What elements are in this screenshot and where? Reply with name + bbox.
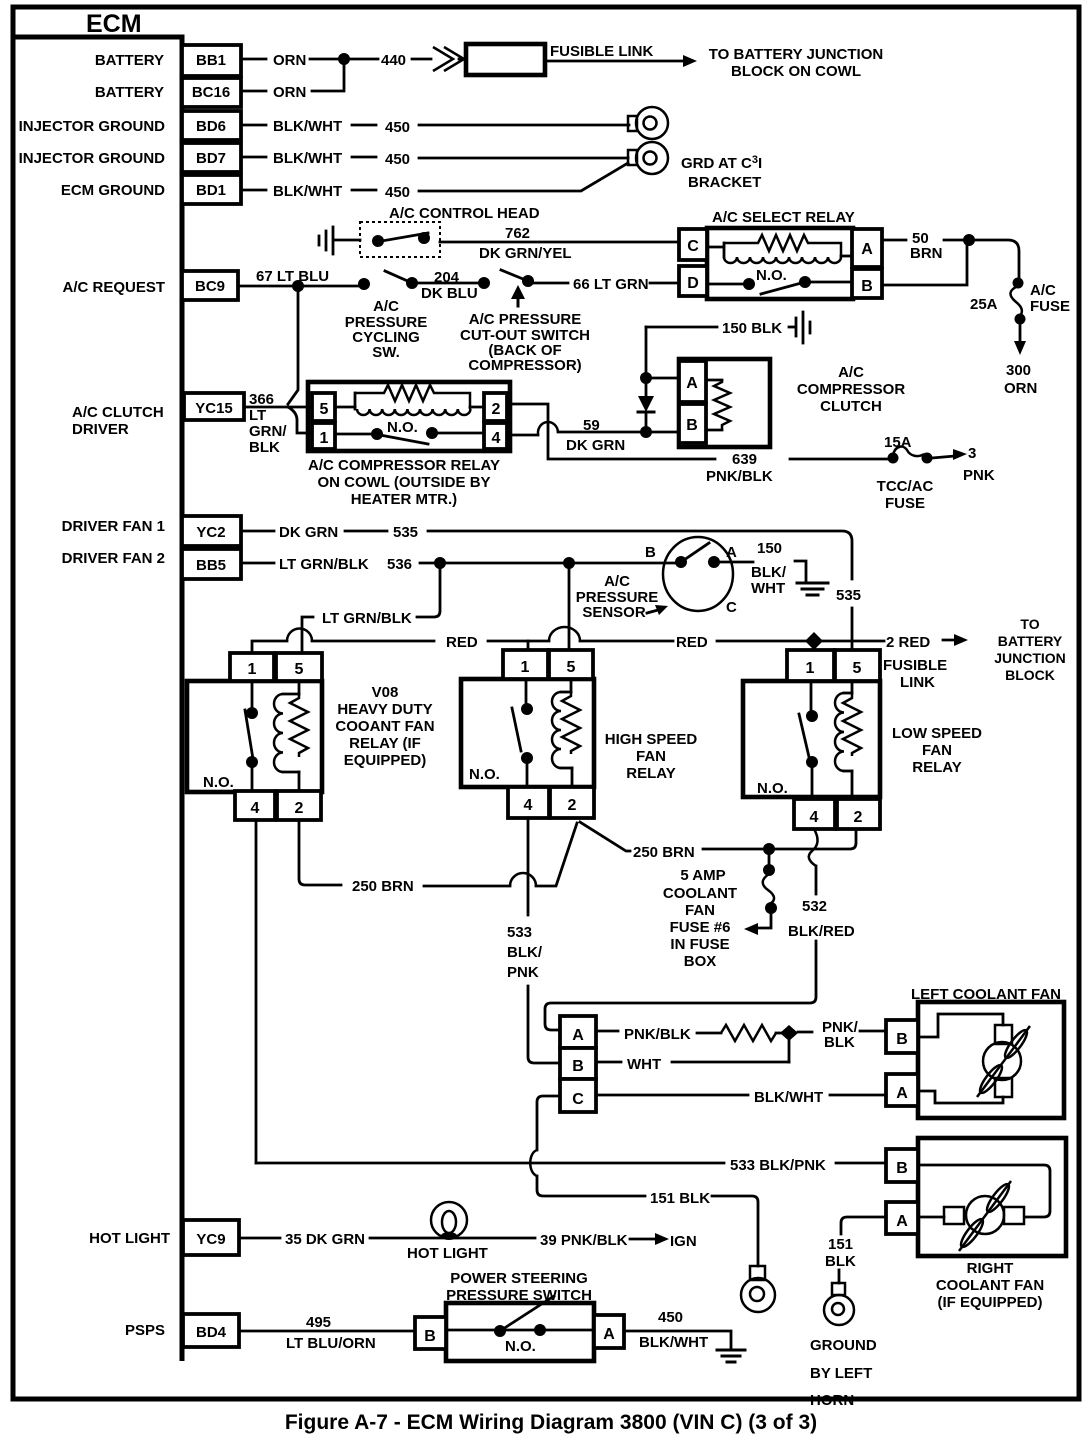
- svg-text:LOW SPEED: LOW SPEED: [892, 725, 982, 742]
- wire BC9 67 LT BLU: [240, 268, 359, 286]
- svg-text:DRIVER: DRIVER: [72, 421, 129, 438]
- label POWER STEERING PRESSURE SWITCH: [446, 1270, 592, 1304]
- wire to battery junction block: [546, 55, 697, 67]
- select relay coil (resistor + coil loop): [709, 235, 852, 263]
- relay V08 heavy duty body box: [187, 681, 322, 792]
- PS switch pin B box: [415, 1317, 446, 1349]
- svg-text:BATTERY: BATTERY: [998, 633, 1063, 649]
- ground grommet 2: [628, 142, 668, 174]
- svg-text:A: A: [896, 1213, 908, 1230]
- wire RED row with hops: [252, 627, 968, 653]
- pin label A/C CLUTCH DRIVER (YC15): [72, 404, 164, 438]
- heavy duty pin 4 box: [235, 791, 275, 820]
- svg-text:25A: 25A: [970, 296, 998, 313]
- svg-text:BOX: BOX: [684, 953, 717, 970]
- svg-text:COOANT FAN: COOANT FAN: [335, 718, 434, 735]
- svg-text:HOT LIGHT: HOT LIGHT: [89, 1230, 170, 1247]
- svg-text:2: 2: [854, 809, 863, 826]
- label TCC/AC FUSE: [877, 478, 934, 512]
- svg-text:450: 450: [385, 151, 410, 168]
- svg-text:ON COWL (OUTSIDE BY: ON COWL (OUTSIDE BY: [317, 474, 490, 491]
- svg-text:A/C: A/C: [604, 573, 630, 590]
- high speed relay coil: [552, 679, 580, 787]
- label TO BATTERY JUNCTION BLOCK ON COWL: [709, 46, 883, 80]
- svg-text:SENSOR: SENSOR: [582, 604, 646, 621]
- pin 5 box: [312, 393, 335, 421]
- svg-text:LINK: LINK: [900, 674, 935, 691]
- clutch pin A box: [679, 361, 706, 402]
- svg-text:250 BRN: 250 BRN: [633, 844, 695, 861]
- label 5 AMP COOLANT FAN FUSE #6 IN FUSE BOX: [663, 867, 737, 970]
- svg-text:GROUND: GROUND: [810, 1337, 877, 1354]
- svg-text:A/C COMPRESSOR RELAY: A/C COMPRESSOR RELAY: [308, 457, 500, 474]
- svg-text:FAN: FAN: [922, 742, 952, 759]
- svg-text:440: 440: [381, 52, 406, 69]
- svg-text:BC16: BC16: [192, 84, 230, 101]
- ring terminal 1: [741, 1266, 775, 1312]
- svg-text:5: 5: [853, 660, 862, 677]
- wire high speed pin 4 down 533 BLK/PNK: [507, 818, 560, 1063]
- pin box BD4: [183, 1314, 239, 1347]
- svg-text:BLK/WHT: BLK/WHT: [273, 150, 342, 167]
- svg-text:B: B: [686, 417, 698, 434]
- svg-text:IGN: IGN: [670, 1233, 697, 1250]
- svg-text:639: 639: [732, 451, 757, 468]
- wire BC16 ORN: [243, 64, 344, 101]
- svg-text:BB5: BB5: [196, 557, 226, 574]
- svg-text:BATTERY: BATTERY: [95, 84, 164, 101]
- svg-text:PSPS: PSPS: [125, 1322, 165, 1339]
- A/C fuse element 25A: [970, 278, 1070, 325]
- svg-text:BLK/: BLK/: [751, 564, 787, 581]
- svg-text:RELAY: RELAY: [912, 759, 961, 776]
- svg-text:4: 4: [251, 800, 260, 817]
- svg-text:204: 204: [434, 269, 460, 286]
- svg-text:67 LT BLU: 67 LT BLU: [256, 268, 329, 285]
- pin box YC2: [182, 516, 241, 546]
- right fan pin B box: [886, 1149, 918, 1182]
- svg-text:ORN: ORN: [1004, 380, 1037, 397]
- svg-text:BLK/WHT: BLK/WHT: [639, 1334, 708, 1351]
- fusible link element: [466, 44, 545, 75]
- pin box YC9: [183, 1220, 239, 1255]
- high speed pin 5 box: [549, 650, 593, 679]
- left coolant fan outer box: [918, 1002, 1064, 1118]
- wire diode bottom to clutch B: [646, 431, 679, 434]
- wire B select relay to junction: [884, 246, 967, 285]
- node junction ORN: [338, 53, 350, 65]
- relay A/C select outer box: [707, 228, 853, 299]
- svg-text:5 AMP: 5 AMP: [680, 867, 725, 884]
- svg-text:C: C: [687, 238, 699, 255]
- svg-text:66 LT GRN: 66 LT GRN: [573, 276, 649, 293]
- svg-text:533 BLK/PNK: 533 BLK/PNK: [730, 1157, 826, 1174]
- svg-text:BLK: BLK: [824, 1034, 855, 1051]
- svg-text:151 BLK: 151 BLK: [650, 1190, 710, 1207]
- svg-text:INJECTOR GROUND: INJECTOR GROUND: [19, 118, 166, 135]
- svg-text:450: 450: [385, 184, 410, 201]
- svg-text:BATTERY: BATTERY: [95, 52, 164, 69]
- pin box BC9: [182, 271, 238, 300]
- wire heavy duty pin 4 down long run: [255, 820, 258, 1163]
- node junction 536 right: [563, 557, 575, 569]
- node junction 50 BRN: [963, 234, 975, 246]
- svg-text:RELAY (IF: RELAY (IF: [349, 735, 421, 752]
- svg-text:535: 535: [393, 524, 418, 541]
- svg-text:450: 450: [658, 1309, 683, 1326]
- connector pin C box: [560, 1079, 596, 1112]
- wire BB1 ORN 440: [243, 52, 466, 69]
- relay low speed body box: [743, 681, 880, 797]
- svg-text:FAN: FAN: [685, 902, 715, 919]
- svg-text:SW.: SW.: [372, 344, 400, 361]
- diode element: [638, 378, 654, 428]
- svg-text:(IF EQUIPPED): (IF EQUIPPED): [937, 1294, 1042, 1311]
- left fan pin B box: [886, 1020, 918, 1053]
- relay high speed body box: [461, 679, 594, 787]
- ECM block outline: [13, 10, 182, 1361]
- svg-text:2 RED: 2 RED: [886, 634, 930, 651]
- svg-text:300: 300: [1006, 362, 1031, 379]
- wire right fan B 533 BLK/PNK: [256, 1157, 886, 1174]
- svg-text:A: A: [896, 1085, 908, 1102]
- svg-text:495: 495: [306, 1314, 331, 1331]
- low speed relay coil: [835, 681, 861, 799]
- label V08 HEAVY DUTY COOANT FAN RELAY: [335, 684, 434, 769]
- A/C pressure sensor circle: [645, 537, 737, 616]
- svg-text:150 BLK: 150 BLK: [722, 320, 782, 337]
- low speed pin 5 box: [835, 650, 880, 681]
- svg-text:DK BLU: DK BLU: [421, 285, 478, 302]
- svg-text:FUSE: FUSE: [1030, 298, 1070, 315]
- low speed relay N.O. switch: [757, 681, 818, 799]
- svg-text:PNK: PNK: [507, 964, 539, 981]
- svg-text:COMPRESSOR: COMPRESSOR: [797, 381, 906, 398]
- svg-text:HEATER MTR.): HEATER MTR.): [351, 491, 457, 508]
- svg-text:39 PNK/BLK: 39 PNK/BLK: [540, 1232, 628, 1249]
- heavy duty pin 5 box: [276, 653, 322, 681]
- svg-text:HEAVY DUTY: HEAVY DUTY: [337, 701, 432, 718]
- svg-text:GRN/: GRN/: [249, 423, 287, 440]
- svg-text:N.O.: N.O.: [756, 267, 787, 284]
- low speed pin 4 box: [794, 799, 835, 829]
- svg-text:DK GRN: DK GRN: [279, 524, 338, 541]
- svg-text:IN FUSE: IN FUSE: [670, 936, 729, 953]
- wire C drop to 151 BLK: [530, 1096, 758, 1266]
- coolant fan fuse 5 AMP element: [744, 849, 777, 935]
- svg-text:PNK/BLK: PNK/BLK: [706, 468, 773, 485]
- svg-text:D: D: [687, 275, 699, 292]
- svg-text:59: 59: [583, 417, 600, 434]
- svg-text:4: 4: [524, 797, 533, 814]
- power steering pressure switch outer box: [446, 1303, 594, 1361]
- svg-text:BC9: BC9: [195, 278, 225, 295]
- svg-text:B: B: [424, 1328, 436, 1345]
- high speed pin 4 box: [508, 787, 549, 818]
- svg-text:BLK: BLK: [825, 1253, 856, 1270]
- svg-text:B: B: [896, 1160, 908, 1177]
- svg-text:JUNCTION: JUNCTION: [994, 650, 1066, 666]
- svg-text:4: 4: [810, 809, 819, 826]
- svg-text:BLK/: BLK/: [507, 944, 543, 961]
- svg-text:ORN: ORN: [273, 52, 306, 69]
- svg-text:B: B: [861, 278, 873, 295]
- connector pin A box: [560, 1016, 596, 1048]
- wire A 450 BLK/WHT to ground: [624, 1309, 745, 1362]
- svg-text:BY LEFT: BY LEFT: [810, 1365, 872, 1382]
- svg-text:BD4: BD4: [196, 1324, 227, 1341]
- svg-text:A/C REQUEST: A/C REQUEST: [62, 279, 165, 296]
- heavy duty relay coil: [274, 681, 308, 791]
- node junction diode top: [640, 372, 652, 384]
- select relay N.O. switch: [709, 267, 852, 294]
- pin box BD7: [182, 143, 241, 172]
- wire pin4 59 DK GRN: [508, 417, 643, 454]
- label RIGHT COOLANT FAN (title below box): [936, 1260, 1044, 1311]
- clutch pin B box: [679, 404, 706, 443]
- svg-text:A/C PRESSURE: A/C PRESSURE: [469, 311, 582, 328]
- wire BD1 BLK/WHT 450: [243, 163, 628, 201]
- label A/C COMPRESSOR RELAY ON COWL: [308, 457, 500, 508]
- wire RED drop to high speed relay pin 1: [527, 641, 530, 649]
- svg-text:YC2: YC2: [196, 524, 225, 541]
- svg-text:A/C: A/C: [373, 298, 399, 315]
- svg-text:BD7: BD7: [196, 150, 226, 167]
- svg-text:366: 366: [249, 391, 274, 408]
- svg-text:ECM: ECM: [86, 10, 142, 38]
- pin box BD6: [182, 111, 241, 140]
- wire high speed pin 2 to 250 BRN right: [580, 822, 856, 861]
- svg-text:250 BRN: 250 BRN: [352, 878, 414, 895]
- wire fork to relay pins 5 and 1: [288, 407, 312, 433]
- svg-text:BRN: BRN: [910, 245, 943, 262]
- high speed relay N.O. switch: [469, 679, 533, 787]
- svg-text:RIGHT: RIGHT: [967, 1260, 1014, 1277]
- A/C compressor clutch outer box: [679, 359, 770, 447]
- svg-text:TO BATTERY JUNCTION: TO BATTERY JUNCTION: [709, 46, 883, 63]
- svg-text:C: C: [726, 599, 737, 616]
- svg-text:B: B: [572, 1058, 584, 1075]
- svg-text:533: 533: [507, 924, 532, 941]
- svg-text:PNK: PNK: [963, 467, 995, 484]
- svg-text:2: 2: [568, 797, 577, 814]
- svg-text:GRD AT C3I: GRD AT C3I: [681, 154, 762, 172]
- svg-text:INJECTOR GROUND: INJECTOR GROUND: [19, 150, 166, 167]
- wire right fan A to ground by left horn: [825, 1217, 886, 1283]
- svg-text:BLK/WHT: BLK/WHT: [754, 1089, 823, 1106]
- clutch coil resistor: [706, 380, 730, 430]
- svg-text:WHT: WHT: [627, 1056, 661, 1073]
- svg-text:BLOCK: BLOCK: [1005, 667, 1055, 683]
- wire C BLK/WHT: [596, 1089, 886, 1106]
- svg-text:DRIVER FAN 2: DRIVER FAN 2: [62, 550, 165, 567]
- A/C pressure cycling switch: [358, 271, 418, 290]
- svg-text:5: 5: [567, 659, 576, 676]
- wire A PNK/BLK with resistor: [596, 1019, 886, 1051]
- svg-text:2: 2: [295, 800, 304, 817]
- svg-text:450: 450: [385, 119, 410, 136]
- svg-text:N.O.: N.O.: [469, 766, 500, 783]
- svg-text:EQUIPPED): EQUIPPED): [344, 752, 427, 769]
- svg-text:532: 532: [802, 898, 827, 915]
- svg-text:HORN: HORN: [810, 1392, 854, 1409]
- svg-text:LT BLU/ORN: LT BLU/ORN: [286, 1335, 376, 1352]
- svg-text:COOLANT: COOLANT: [663, 885, 737, 902]
- svg-text:A/C CLUTCH: A/C CLUTCH: [72, 404, 164, 421]
- svg-text:RELAY: RELAY: [626, 765, 675, 782]
- wire BC9 branch down to compressor relay: [288, 286, 298, 404]
- pin box YC15: [184, 393, 244, 420]
- A/C pressure cut-out switch: [478, 270, 534, 306]
- wire 150 BLK: [646, 320, 782, 337]
- heavy duty pin 1 box: [230, 653, 274, 681]
- svg-text:HOT LIGHT: HOT LIGHT: [407, 1245, 488, 1262]
- wire heavy duty pin 2 to 250 BRN: [299, 820, 577, 895]
- node junction 67 LT BLU: [292, 280, 304, 292]
- wire diode top to clutch A: [646, 377, 679, 380]
- label A/C COMPRESSOR CLUTCH: [797, 364, 906, 415]
- svg-text:535: 535: [836, 587, 861, 604]
- svg-text:RED: RED: [446, 634, 478, 651]
- wire YC15 366 LT GRN/BLK: [246, 391, 288, 456]
- svg-text:BLOCK ON COWL: BLOCK ON COWL: [731, 63, 861, 80]
- label HIGH SPEED FAN RELAY: [605, 731, 698, 782]
- svg-text:N.O.: N.O.: [505, 1338, 536, 1355]
- pin 1 box: [312, 423, 335, 449]
- svg-text:BLK/WHT: BLK/WHT: [273, 183, 342, 200]
- label A/C PRESSURE CYCLING SW.: [345, 298, 428, 361]
- A/C control head switch (dotted box): [360, 222, 440, 257]
- wire BB5 LT GRN/BLK 536: [243, 556, 676, 573]
- svg-text:2: 2: [492, 401, 501, 418]
- connector pin B box: [560, 1048, 596, 1079]
- svg-text:LT: LT: [249, 407, 266, 424]
- wire 300 ORN arrow: [1004, 324, 1037, 397]
- svg-text:A: A: [726, 544, 737, 561]
- svg-text:3: 3: [968, 445, 976, 462]
- wire 66 LT GRN: [534, 276, 679, 293]
- pin box BD1: [182, 175, 241, 204]
- wire 204 DK BLU: [418, 269, 478, 302]
- right fan pin A box: [886, 1202, 918, 1234]
- wire 3 PNK arrow: [932, 445, 995, 484]
- svg-text:BLK/RED: BLK/RED: [788, 923, 855, 940]
- compressor relay N.O. switch: [336, 419, 484, 444]
- pin C box: [679, 229, 707, 260]
- high speed pin 1 box: [503, 650, 548, 679]
- wire BD6 BLK/WHT 450: [243, 118, 629, 136]
- chassis ground at 150 BLK: [789, 312, 810, 343]
- svg-text:A/C CONTROL HEAD: A/C CONTROL HEAD: [389, 205, 540, 222]
- svg-text:A: A: [861, 241, 873, 258]
- svg-text:5: 5: [320, 401, 329, 418]
- right fan motor symbol: [918, 1165, 1050, 1251]
- svg-text:TCC/AC: TCC/AC: [877, 478, 934, 495]
- pin 2 box: [484, 393, 507, 421]
- wire YC2 DK GRN 535: [243, 524, 852, 579]
- svg-text:FUSIBLE: FUSIBLE: [883, 657, 947, 674]
- heavy duty relay N.O. switch: [203, 681, 258, 791]
- wire B WHT: [596, 1033, 789, 1073]
- svg-text:A/C: A/C: [1030, 282, 1056, 299]
- left fan pin A box: [886, 1074, 918, 1106]
- svg-text:A: A: [603, 1326, 615, 1343]
- svg-text:TO: TO: [1020, 616, 1039, 632]
- svg-text:35 DK GRN: 35 DK GRN: [285, 1231, 365, 1248]
- node junction PNK/BLK: [780, 1025, 798, 1041]
- low speed pin 1 box: [787, 650, 834, 681]
- svg-text:V08: V08: [372, 684, 399, 701]
- svg-text:FUSIBLE LINK: FUSIBLE LINK: [550, 43, 653, 60]
- svg-text:B: B: [896, 1031, 908, 1048]
- svg-text:A: A: [572, 1027, 584, 1044]
- svg-text:762: 762: [505, 225, 530, 242]
- label A/C PRESSURE SENSOR: [576, 573, 668, 621]
- svg-text:PNK/BLK: PNK/BLK: [624, 1026, 691, 1043]
- wire low speed pin 4 down 532 BLK/RED: [545, 829, 855, 1030]
- svg-text:LT GRN/BLK: LT GRN/BLK: [279, 556, 369, 573]
- low speed pin 2 box: [837, 799, 880, 829]
- svg-text:BD1: BD1: [196, 182, 226, 199]
- node junction diode bottom: [640, 426, 652, 438]
- label GROUND BY LEFT HORN: [810, 1337, 877, 1409]
- chassis ground stub at control head: [319, 227, 360, 254]
- relay A/C compressor outer box: [308, 382, 510, 451]
- wire down to diode: [645, 327, 648, 375]
- wire YC9 35 DK GRN: [241, 1231, 535, 1248]
- compressor relay coil (resistor + coil loop): [336, 385, 484, 415]
- wire 762 DK GRN/YEL: [440, 225, 677, 262]
- label LOW SPEED FAN RELAY: [892, 725, 982, 776]
- svg-text:DRIVER FAN 1: DRIVER FAN 1: [62, 518, 165, 535]
- label A/C PRESSURE CUT-OUT SWITCH (BACK OF COMPRESSOR): [460, 311, 590, 374]
- svg-text:151: 151: [828, 1236, 853, 1253]
- svg-text:1: 1: [806, 660, 815, 677]
- node diamond junction 2 RED: [805, 632, 823, 650]
- wire BD4 495 LT BLU/ORN: [241, 1314, 415, 1352]
- PS switch pin A box: [594, 1315, 624, 1348]
- svg-text:A/C SELECT RELAY: A/C SELECT RELAY: [712, 209, 855, 226]
- svg-text:BB1: BB1: [196, 52, 226, 69]
- svg-text:1: 1: [248, 661, 257, 678]
- svg-text:N.O.: N.O.: [203, 774, 234, 791]
- pin B box: [852, 269, 882, 298]
- svg-text:BLK: BLK: [249, 439, 280, 456]
- wire 536 drop to high speed relay pin 5: [568, 563, 571, 649]
- wire sensor A to 150 BLK/WHT ground: [714, 540, 828, 597]
- PS switch N.O. contacts: [446, 1296, 594, 1355]
- svg-text:ORN: ORN: [273, 84, 306, 101]
- svg-text:DK GRN: DK GRN: [566, 437, 625, 454]
- high speed pin 2 box: [550, 787, 594, 818]
- svg-text:N.O.: N.O.: [387, 419, 418, 436]
- pin box BB5: [182, 549, 241, 579]
- svg-text:Figure A-7 - ECM Wiring Diagra: Figure A-7 - ECM Wiring Diagram 3800 (VI…: [285, 1411, 817, 1434]
- right coolant fan outer box: [918, 1138, 1066, 1256]
- TCC/AC fuse element 15A: [884, 434, 933, 464]
- svg-text:4: 4: [492, 430, 501, 447]
- pin A box: [852, 229, 882, 267]
- wire BD7 BLK/WHT 450: [243, 150, 628, 168]
- pin box BB1: [182, 45, 241, 76]
- svg-text:536: 536: [387, 556, 412, 573]
- wire LT GRN/BLK drop from junction: [302, 563, 440, 653]
- pin D box: [679, 266, 707, 296]
- wire 639 PNK/BLK label: [706, 451, 888, 485]
- wire A select relay 50 BRN: [884, 230, 1019, 281]
- left fan motor symbol: [918, 1014, 1030, 1103]
- svg-text:CLUTCH: CLUTCH: [820, 398, 882, 415]
